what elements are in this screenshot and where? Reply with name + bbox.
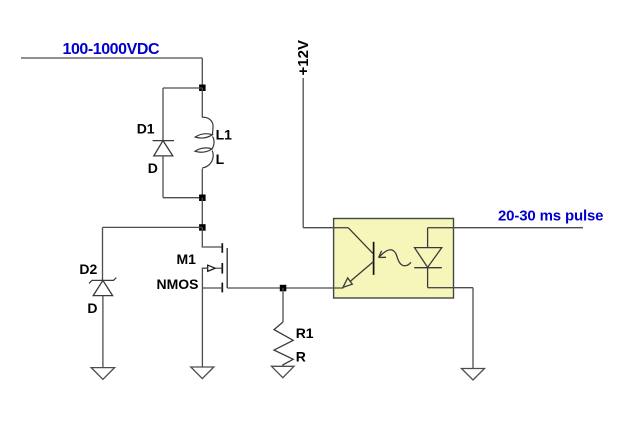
svg-text:R1: R1: [296, 325, 314, 341]
wire M1 source to ground: [201, 288, 203, 367]
inductor L1 coil turn 3: [202, 151, 213, 168]
wire M1 drain lead: [202, 227, 222, 247]
svg-text:D: D: [148, 160, 158, 176]
wire M1 gate lead: [202, 268, 207, 288]
transistor M1 body line: [226, 248, 228, 288]
wire LED cathode drop to ground: [472, 288, 474, 369]
svg-text:M1: M1: [177, 251, 197, 267]
transistor M1 channel bar bottom: [221, 283, 223, 293]
wire top HV rail: [21, 57, 202, 59]
inductor L1 crossover loop 1: [195, 134, 212, 138]
resistor R1 zigzag: [274, 322, 293, 366]
wire D2 upper lead: [102, 227, 104, 280]
svg-text:R: R: [296, 349, 306, 365]
opto LED cathode bar: [414, 267, 442, 269]
svg-text:100-1000VDC: 100-1000VDC: [63, 41, 160, 58]
wire +12V drop: [302, 78, 304, 228]
ground G3: [272, 366, 295, 377]
transistor M1 gate arrow: [208, 265, 223, 271]
wire +12V to optocoupler collector: [303, 227, 348, 229]
wire inductor top lead: [201, 88, 203, 118]
node junction J3: [199, 224, 206, 231]
opto phototransistor emitter lead: [350, 262, 374, 282]
wire M1 source lead: [202, 287, 222, 289]
zener D2 cathode bar: [89, 278, 116, 284]
opto LED triangle: [415, 248, 442, 268]
opto light squiggle arrow: [379, 250, 411, 266]
wire output to optocoupler emitter: [227, 287, 343, 289]
opto phototransistor base bar: [373, 242, 375, 275]
opto phototransistor emitter arrowhead: [343, 278, 352, 288]
svg-text:D: D: [87, 300, 97, 316]
svg-text:D1: D1: [137, 120, 155, 136]
node junction J1: [199, 85, 206, 92]
svg-text:D2: D2: [79, 261, 97, 277]
ground G2: [191, 367, 214, 379]
wire D1 branch bottom: [163, 197, 202, 199]
zener D2 triangle: [93, 280, 112, 295]
wire D1 branch left upper: [162, 88, 164, 141]
opto LED anode lead: [427, 228, 429, 248]
wire LED anode to pulse input: [428, 227, 583, 229]
svg-text:+12V: +12V: [295, 40, 312, 75]
diode D1 cathode bar: [153, 140, 174, 142]
wire inductor bottom lead: [201, 169, 203, 198]
ground G4: [462, 369, 485, 380]
inductor L1 coil turn 1: [202, 117, 213, 134]
wire D1 branch left lower: [162, 156, 164, 198]
wire D1 branch top: [163, 87, 202, 89]
svg-text:L1: L1: [216, 126, 233, 142]
node junction J4: [280, 285, 287, 292]
optocoupler U1 body: [334, 219, 454, 299]
opto phototransistor collector lead: [348, 228, 373, 254]
ground G1: [91, 368, 114, 380]
svg-text:L: L: [216, 151, 225, 167]
wire R1 top lead: [282, 288, 284, 322]
wire D2 lower lead: [102, 296, 104, 368]
wire HV rail drop to node: [201, 58, 203, 88]
inductor L1 coil turn 2: [212, 137, 214, 149]
node junction J2: [199, 195, 206, 202]
transistor M1 channel bar middle: [221, 263, 223, 274]
wire D2 branch horizontal: [103, 226, 203, 228]
wire LED cathode out: [428, 287, 473, 289]
wire J2 to J3: [201, 198, 203, 228]
opto LED cathode lead: [427, 268, 429, 288]
transistor M1 channel bar top: [221, 243, 223, 253]
inductor L1 crossover loop 2: [195, 148, 212, 152]
diode D1 triangle: [154, 141, 173, 156]
svg-text:20-30 ms pulse: 20-30 ms pulse: [498, 207, 604, 224]
svg-text:NMOS: NMOS: [157, 276, 199, 292]
